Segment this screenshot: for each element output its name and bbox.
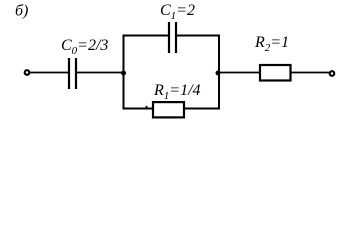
wire R2 to T2 (291, 72, 329, 74)
svg-text:R1=1/4: R1=1/4 (153, 82, 201, 102)
wire top branch right segment (176, 35, 220, 37)
capacitor C1 (169, 22, 176, 53)
wire top branch left segment (123, 35, 170, 37)
svg-text:C0=2/3: C0=2/3 (61, 37, 108, 57)
wire node B to R2 (219, 72, 260, 74)
wire right vertical branch (218, 35, 220, 110)
resistor R2 (260, 65, 291, 81)
wire bottom branch right segment (184, 108, 220, 110)
node A (junction dot) (121, 71, 126, 76)
terminal T1 (left) (25, 70, 30, 75)
node B (junction dot) (216, 71, 221, 76)
resistor R1 (153, 102, 184, 117)
svg-text:R2=1: R2=1 (254, 34, 289, 54)
terminal T2 (right) (330, 71, 335, 76)
svg-text:C1=2: C1=2 (160, 2, 195, 22)
wire bottom branch left segment (123, 108, 154, 110)
wire left vertical branch (123, 35, 125, 110)
capacitor C0 (69, 58, 76, 89)
svg-text:б): б) (15, 3, 28, 20)
wire T1 to C0 (30, 72, 69, 74)
wire C0 to node A (77, 72, 123, 74)
